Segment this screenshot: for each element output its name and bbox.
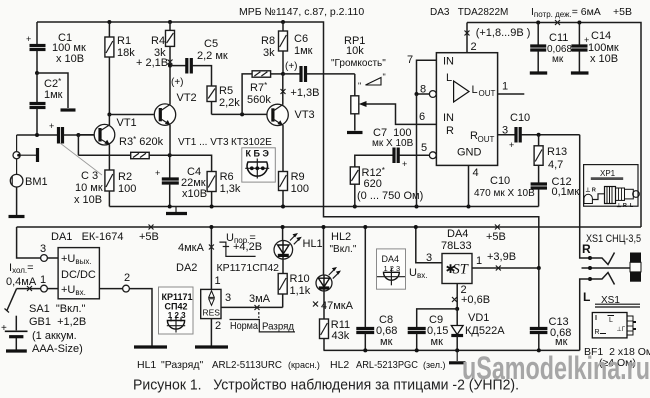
LED HL1 xyxy=(274,227,323,274)
node: pin7/8 junction xyxy=(415,92,419,96)
svg-text:RES: RES xyxy=(203,308,221,318)
node: +3.9V junction xyxy=(537,266,541,270)
svg-text:"Вкл.": "Вкл." xyxy=(330,244,357,255)
svg-text:2,2k: 2,2k xyxy=(219,97,240,109)
node: DA2 on +5V rail xyxy=(209,225,213,229)
node: R9 ground xyxy=(281,205,285,209)
threshold pictogram U por xyxy=(219,232,262,256)
capacitor C3 xyxy=(49,121,103,206)
svg-text:(1 аккум.: (1 аккум. xyxy=(32,330,77,342)
node: DA3 pin7/8 ground xyxy=(415,205,419,209)
svg-text:+: + xyxy=(155,168,160,178)
node: C13 bottom xyxy=(537,348,541,352)
svg-text:4,7: 4,7 xyxy=(548,159,563,171)
wire: microphone input line xyxy=(17,134,57,136)
svg-text:L: L xyxy=(609,317,613,324)
electret mic element xyxy=(13,135,38,162)
wire: top right +5V rail xyxy=(467,20,641,227)
svg-text:": " xyxy=(383,72,386,82)
svg-text:+: + xyxy=(26,34,31,44)
svg-text:R: R xyxy=(582,242,591,256)
svg-text:1,1k: 1,1k xyxy=(290,285,311,297)
svg-text:R7*: R7* xyxy=(250,81,267,94)
wire: DA4 pin 2 xyxy=(452,284,490,309)
svg-text:ARL2-5113URC: ARL2-5113URC xyxy=(212,359,282,371)
capacitor C5 2,2мк xyxy=(170,38,228,88)
wire: +3.9V vertical to C13 xyxy=(538,268,540,328)
svg-text:VT1: VT1 xyxy=(117,117,137,129)
svg-text:R: R xyxy=(595,329,600,336)
svg-text:"Разряд": "Разряд" xyxy=(161,359,203,371)
svg-text:5: 5 xyxy=(421,142,427,154)
svg-text:2: 2 xyxy=(471,41,477,53)
resistor R2 100 xyxy=(105,170,136,207)
svg-text:DA3 TDA2822M: DA3 TDA2822M xyxy=(430,7,508,18)
node: DA3 pin4 ground xyxy=(467,205,471,209)
capacitor C8 0,68мк xyxy=(356,227,397,350)
pinout box KP1171 SP42 xyxy=(159,287,194,334)
svg-text:2,2 мк: 2,2 мк xyxy=(197,50,228,62)
svg-text:R: R xyxy=(446,125,454,137)
svg-text:R4: R4 xyxy=(151,35,165,47)
svg-text:100: 100 xyxy=(118,183,136,195)
svg-text:1: 1 xyxy=(476,255,482,267)
node: R12 ground xyxy=(353,205,357,209)
wire: DA4 pin 1 output +3,9V xyxy=(472,251,539,271)
resistor R11 43k xyxy=(320,319,351,350)
label: C10 value xyxy=(474,175,535,199)
svg-text:7: 7 xyxy=(407,54,413,66)
node: C8 bottom xyxy=(363,348,367,352)
wire: DA2 pin 2 ground xyxy=(195,319,228,347)
svg-text:ST: ST xyxy=(453,262,469,278)
label: HL1 type xyxy=(137,359,320,371)
svg-text:DA4: DA4 xyxy=(382,254,400,264)
supervisor DA2 KP1171SP42 xyxy=(178,227,221,319)
node: C14 top xyxy=(577,21,581,25)
svg-text:3k: 3k xyxy=(263,47,275,59)
svg-text:4мкА: 4мкА xyxy=(178,242,204,254)
svg-text:10 мк: 10 мк xyxy=(75,182,103,194)
svg-text:мк X 10В: мк X 10В xyxy=(372,138,414,149)
svg-text:R5: R5 xyxy=(219,85,233,97)
svg-text:мк: мк xyxy=(555,336,568,348)
capacitor C2 xyxy=(30,73,63,135)
capacitor C4 22мк xyxy=(155,155,207,206)
ground (RP1) xyxy=(347,131,363,134)
svg-text:IN: IN xyxy=(443,112,454,124)
svg-text:4: 4 xyxy=(473,167,479,179)
ground (BM1) xyxy=(9,215,25,218)
wire: emitter node to R6 xyxy=(170,155,212,171)
node: C10 / R13 junction xyxy=(537,133,541,137)
wire: DA1 pin 2 to ground xyxy=(99,272,167,347)
svg-text:DA2: DA2 xyxy=(176,262,197,274)
svg-text:2: 2 xyxy=(215,320,221,332)
node: junction R8 top xyxy=(281,20,285,24)
svg-text:+1,3В: +1,3В xyxy=(290,87,319,99)
transistor VT3 xyxy=(267,74,315,172)
node: C9 bottom xyxy=(415,348,419,352)
svg-text:+: + xyxy=(402,159,407,169)
svg-text:560k: 560k xyxy=(247,94,271,106)
svg-text:R2: R2 xyxy=(118,171,132,183)
test point +1,3В xyxy=(281,87,320,99)
wire: ground rail (top section) xyxy=(109,206,538,208)
svg-text:18k: 18k xyxy=(117,47,135,59)
node: junction R1 top xyxy=(107,20,111,24)
svg-text:10k: 10k xyxy=(346,45,364,57)
socket XS1 contacts xyxy=(580,233,641,350)
svg-text:(+): (+) xyxy=(171,77,184,88)
svg-text:мк: мк xyxy=(431,336,444,348)
svg-text:R8: R8 xyxy=(261,35,275,47)
switch SA1 xyxy=(5,289,86,315)
wire: VT3 base line xyxy=(212,113,268,115)
svg-text:OUT: OUT xyxy=(479,89,496,98)
svg-text:КР1171СП42: КР1171СП42 xyxy=(217,262,280,274)
node: junction R4 top xyxy=(168,20,172,24)
svg-text:КТ3102Е: КТ3102Е xyxy=(231,137,272,148)
wire: bottom ground rail xyxy=(324,349,580,351)
svg-text:(зел.): (зел.) xyxy=(423,360,445,370)
svg-text:620: 620 xyxy=(364,178,382,190)
resistor R8 3k xyxy=(261,22,288,74)
pinout box DA4 xyxy=(377,249,406,289)
resistor R10 1,1k xyxy=(278,273,311,307)
pin 8 (inverting, circle) xyxy=(417,84,437,98)
svg-text:3: 3 xyxy=(426,252,432,264)
svg-text:0,1мк: 0,1мк xyxy=(552,186,580,198)
resistor R4 3k xyxy=(136,22,175,69)
wire: C2 branch to ground xyxy=(37,73,68,108)
svg-text:8: 8 xyxy=(420,84,426,96)
svg-text:(красн.): (красн.) xyxy=(288,360,320,370)
svg-text:+4,2В: +4,2В xyxy=(233,241,262,253)
svg-text:+: + xyxy=(49,121,54,131)
capacitor C7 100мк xyxy=(372,127,430,169)
resistor R7* 560k xyxy=(242,71,283,115)
DC/DC converter DA1 xyxy=(17,227,100,299)
svg-text:+5В: +5В xyxy=(139,231,159,243)
svg-text:R6: R6 xyxy=(220,171,234,183)
node: HL2 on +5V rail xyxy=(322,225,326,229)
svg-text:43k: 43k xyxy=(332,330,350,342)
svg-text:VD1: VD1 xyxy=(468,312,489,324)
svg-text:(0 ... 750 Ом): (0 ... 750 Ом) xyxy=(357,190,423,202)
svg-text:6: 6 xyxy=(419,111,425,123)
resistor R5 2,2k xyxy=(207,85,240,114)
svg-text:мк: мк xyxy=(380,336,393,348)
battery GB1 xyxy=(1,316,86,355)
svg-text:МРБ №1147, с.87, р.2.110: МРБ №1147, с.87, р.2.110 xyxy=(239,6,364,18)
resistor R1 18k xyxy=(105,22,135,115)
wire: DA3 pin 7 xyxy=(407,54,436,94)
svg-text:47мкА: 47мкА xyxy=(321,300,354,312)
wire: DA3 pin4 GND xyxy=(469,165,479,206)
svg-text:+5В: +5В xyxy=(486,231,506,243)
LED HL2 xyxy=(313,227,357,319)
op-amp U=DA3 TDA2822M box xyxy=(436,53,497,166)
node: HL1 on +5V rail xyxy=(281,225,285,229)
svg-text:КД522А: КД522А xyxy=(465,325,505,337)
diode VD1 КД522А xyxy=(451,309,505,351)
waveform Норма/Разряд xyxy=(230,312,296,333)
svg-text:1мк: 1мк xyxy=(44,89,63,101)
svg-text:HL2: HL2 xyxy=(330,359,349,371)
node: mic line / rail junction xyxy=(35,133,39,137)
svg-text:x10В: x10В xyxy=(182,188,207,200)
svg-text:HL2: HL2 xyxy=(331,231,351,243)
svg-text:GND: GND xyxy=(457,147,482,159)
node: DA4 pin3 on rail xyxy=(414,225,418,229)
svg-text:DA4: DA4 xyxy=(447,228,468,240)
resistor R9 100 xyxy=(279,171,309,207)
svg-text:C10: C10 xyxy=(490,175,510,187)
svg-text:DC/DC: DC/DC xyxy=(61,269,96,281)
svg-text:3: 3 xyxy=(502,125,508,137)
ground (bottom rail) xyxy=(449,350,466,362)
capacitor C6 1мк xyxy=(283,33,355,82)
capacitor C13 0,68мк xyxy=(530,316,572,350)
svg-text:C5: C5 xyxy=(204,38,218,50)
microphone BM1 xyxy=(10,159,47,215)
node: VT3 collector node xyxy=(281,72,285,76)
regulator DA4 78L33 xyxy=(409,227,472,284)
node: VT2 emitter junction xyxy=(168,153,172,157)
pinout box KБЭ (transistor) xyxy=(242,148,275,182)
svg-text:IN: IN xyxy=(443,56,454,68)
node: R7 junction on base line xyxy=(240,112,244,116)
resistor R12* 620 xyxy=(350,155,423,206)
capacitor C14 100мк xyxy=(571,23,619,74)
svg-text:XP1: XP1 xyxy=(600,169,616,178)
capacitor C12 0,1мк xyxy=(531,176,580,207)
svg-text:⊥Γ: ⊥Γ xyxy=(617,326,626,333)
svg-text:(+): (+) xyxy=(285,61,298,72)
svg-text:BM1: BM1 xyxy=(25,176,48,188)
svg-text:1мк: 1мк xyxy=(294,45,313,57)
svg-text:⊥ R: ⊥ R xyxy=(586,187,596,194)
svg-text:+ 2,1В: + 2,1В xyxy=(136,57,168,69)
svg-text:x 10В: x 10В xyxy=(74,194,102,206)
ground (C2 branch) xyxy=(61,108,76,111)
svg-text:x 10В: x 10В xyxy=(590,53,618,65)
svg-text:1,3k: 1,3k xyxy=(220,183,241,195)
svg-text:+3,9В: +3,9В xyxy=(487,251,516,263)
node: DA4 pin2 / C9 / VD1 junction xyxy=(455,307,459,311)
svg-text:Рисунок 1. Устройство наблюд: Рисунок 1. Устройство наблюдения за птиц… xyxy=(133,377,519,394)
label: BF1 headphones xyxy=(584,346,650,369)
svg-text:"Громкость": "Громкость" xyxy=(331,58,386,69)
svg-text:VT3: VT3 xyxy=(295,109,315,121)
svg-text:R10: R10 xyxy=(290,273,310,285)
svg-text:+5В: +5В xyxy=(613,6,632,18)
wire: DA3 pin1 L OUT stub xyxy=(498,81,525,95)
svg-text:Iпотр. деж.= 6мА: Iпотр. деж.= 6мА xyxy=(531,6,601,19)
svg-text:R9: R9 xyxy=(291,171,305,183)
svg-text:HL1: HL1 xyxy=(303,238,323,250)
svg-text:+: + xyxy=(1,323,7,334)
svg-text:+0,6В: +0,6В xyxy=(461,294,490,306)
svg-text:+Uвх.: +Uвх. xyxy=(61,284,86,297)
svg-text:R3* 620k: R3* 620k xyxy=(119,135,164,148)
svg-text:СП42: СП42 xyxy=(165,302,188,312)
svg-text:КР1171: КР1171 xyxy=(162,292,193,302)
node: VD1 bottom xyxy=(455,348,459,352)
socket XS1 (speaker) illustration xyxy=(592,295,640,338)
svg-text:SA1 "Вкл.": SA1 "Вкл." xyxy=(29,303,86,315)
svg-text:+: + xyxy=(509,140,514,150)
pin 5 (inverting, circle) xyxy=(421,142,436,159)
wire: pin8 node to ground rail xyxy=(416,94,418,207)
wire: VT1 collector to VT2 base xyxy=(109,114,153,116)
wire: DA3 pin 2 supply xyxy=(465,23,531,54)
node: C11 top xyxy=(536,21,540,25)
wire: +5V bottom rail xyxy=(17,225,641,230)
wire: VT1 base feedback drop xyxy=(77,135,79,155)
node: R6 ground xyxy=(210,205,214,209)
resistor R13 4,7 xyxy=(534,135,567,183)
svg-text:C11: C11 xyxy=(549,32,568,44)
svg-text:": " xyxy=(358,81,361,91)
ground symbol on rail xyxy=(166,207,187,214)
node: C8 top xyxy=(363,225,367,229)
svg-text:VT2: VT2 xyxy=(177,92,197,104)
node: C1/C2 junction xyxy=(35,71,39,75)
resistor R3* 620k (feedback) xyxy=(78,135,169,159)
connector XP1 box xyxy=(584,165,640,209)
svg-text:OUT: OUT xyxy=(478,135,495,144)
svg-text:470 мк X 10В: 470 мк X 10В xyxy=(474,188,535,199)
svg-text:К Б Э: К Б Э xyxy=(246,149,270,159)
svg-text:GB1 +1,2В: GB1 +1,2В xyxy=(29,316,86,328)
svg-text:R13: R13 xyxy=(547,146,567,158)
svg-text:1: 1 xyxy=(40,274,46,286)
node: VT2 collector node xyxy=(168,64,172,68)
capacitor C11 0,068мк xyxy=(530,23,573,74)
svg-text:1: 1 xyxy=(502,81,508,93)
wire: +3.9V preamp supply top rail xyxy=(37,22,539,268)
svg-text:100: 100 xyxy=(291,183,309,195)
node: VT1 base / R3 junction xyxy=(76,133,80,137)
svg-text:1: 1 xyxy=(215,275,221,287)
plug tip bars xyxy=(630,253,641,282)
svg-text:⊥ R L: ⊥ R L xyxy=(617,202,634,209)
svg-text:DA1 ЕК-1674: DA1 ЕК-1674 xyxy=(51,231,123,243)
node: C4 ground xyxy=(168,205,172,209)
svg-text:L: L xyxy=(446,72,452,84)
svg-text:C6: C6 xyxy=(294,33,308,45)
svg-text:VT1 ... VT3: VT1 ... VT3 xyxy=(178,137,229,148)
potentiometer RP1 10k xyxy=(331,35,436,131)
wire: DA2 pin 3 to R10 xyxy=(221,292,283,310)
svg-text:L: L xyxy=(583,290,590,304)
svg-text:2: 2 xyxy=(124,272,130,284)
transistor VT1 xyxy=(78,115,136,171)
svg-text:Разряд: Разряд xyxy=(262,321,294,333)
resistor R6 1,3k xyxy=(207,171,241,207)
svg-text:3: 3 xyxy=(225,292,231,304)
capacitor C10 (output, series) xyxy=(498,112,580,150)
node: VT1 collector / VT2 base junction xyxy=(107,113,111,117)
wire: R channel signal to XS1 xyxy=(580,135,590,258)
svg-text:мк: мк xyxy=(552,54,564,65)
transistor VT2 xyxy=(154,66,197,156)
svg-text:+Uвых.: +Uвых. xyxy=(61,253,92,266)
svg-text:C14: C14 xyxy=(591,30,611,42)
svg-text:0,4мА: 0,4мА xyxy=(6,276,37,288)
svg-text:AAA-Size): AAA-Size) xyxy=(32,343,83,355)
capacitor C9 0,15мк xyxy=(408,309,458,351)
svg-text:ARL-5213PGC: ARL-5213PGC xyxy=(356,359,418,371)
svg-text:C 3: C 3 xyxy=(81,170,98,182)
svg-text:Iхол.=: Iхол.= xyxy=(9,262,34,275)
svg-text:(+1,8...9В ): (+1,8...9В ) xyxy=(476,27,531,39)
svg-text:C10: C10 xyxy=(510,112,530,124)
svg-text:3мА: 3мА xyxy=(249,293,271,305)
svg-text:L: L xyxy=(472,84,478,96)
wire: DA1 pin 1 input xyxy=(6,262,58,292)
svg-text:HL1: HL1 xyxy=(137,359,156,371)
svg-text:XS1 СНЦ-3,5: XS1 СНЦ-3,5 xyxy=(586,233,641,245)
svg-text:78L33: 78L33 xyxy=(441,240,472,252)
svg-text:x 10В: x 10В xyxy=(56,53,84,65)
svg-text:3: 3 xyxy=(40,243,46,255)
svg-text:Норма: Норма xyxy=(230,320,258,332)
capacitor C1 xyxy=(26,22,86,73)
svg-text:R1: R1 xyxy=(117,35,131,47)
svg-text:Uвх.: Uвх. xyxy=(409,267,427,280)
